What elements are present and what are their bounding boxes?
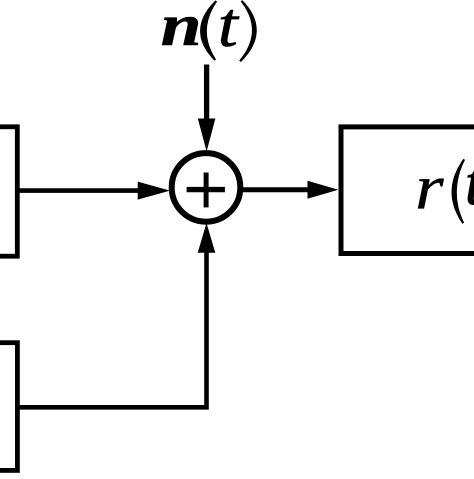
- svg-text:r: r: [415, 152, 445, 223]
- svg-text:n: n: [161, 0, 202, 58]
- svg-text:t: t: [218, 0, 240, 60]
- svg-text:t: t: [465, 147, 474, 218]
